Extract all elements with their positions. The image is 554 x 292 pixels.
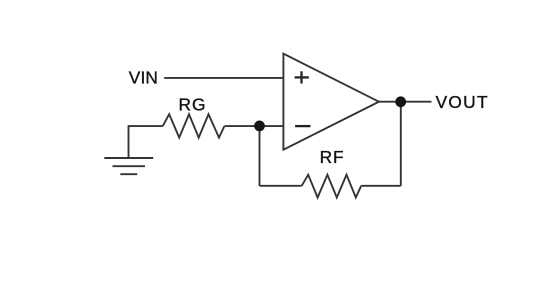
svg-text:VIN: VIN	[129, 68, 158, 88]
svg-text:RF: RF	[320, 147, 344, 167]
svg-text:RG: RG	[179, 94, 206, 114]
svg-text:VOUT: VOUT	[436, 92, 488, 112]
